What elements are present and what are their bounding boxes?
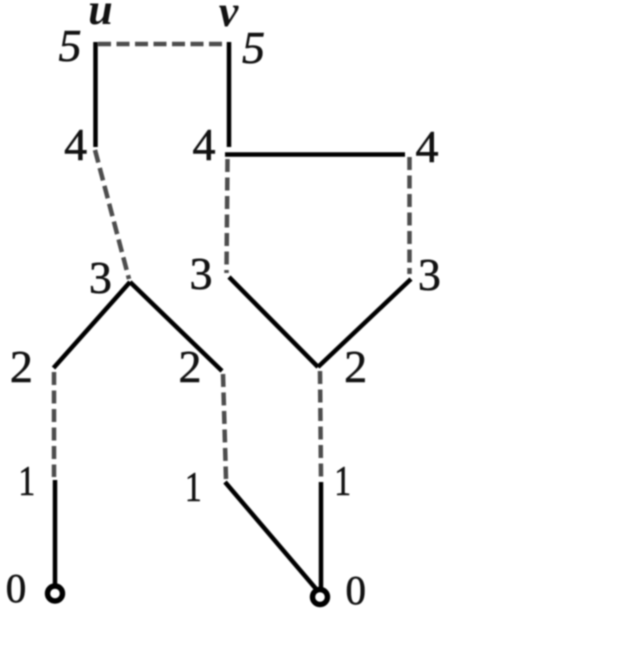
svg-text:4: 4	[193, 119, 216, 170]
svg-text:4: 4	[64, 119, 87, 170]
svg-text:1: 1	[185, 465, 202, 511]
svg-text:4: 4	[416, 121, 439, 172]
svg-text:5: 5	[242, 22, 265, 73]
svg-text:3: 3	[190, 248, 213, 299]
svg-text:0: 0	[346, 567, 367, 613]
svg-text:u: u	[88, 0, 112, 34]
svg-text:2: 2	[344, 341, 367, 392]
svg-text:v: v	[219, 0, 239, 36]
svg-text:5: 5	[59, 20, 82, 71]
svg-text:3: 3	[89, 252, 112, 303]
svg-text:2: 2	[10, 341, 33, 392]
svg-text:0: 0	[6, 565, 27, 611]
svg-text:3: 3	[418, 249, 441, 300]
svg-text:2: 2	[179, 341, 202, 392]
svg-text:1: 1	[18, 459, 35, 505]
svg-text:1: 1	[334, 459, 351, 505]
